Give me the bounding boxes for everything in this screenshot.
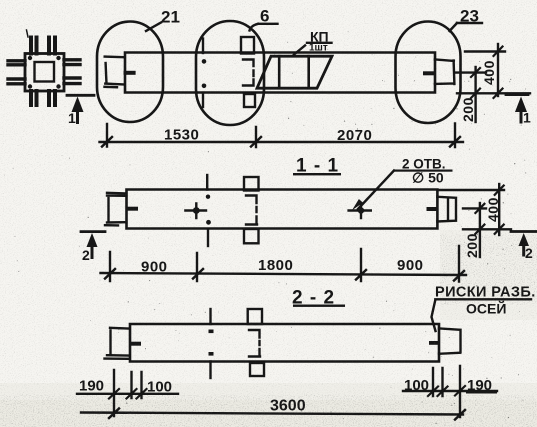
1-1 centerline stub above: [206, 175, 208, 190]
end view right bars: [64, 60, 80, 84]
ticks: [102, 137, 460, 147]
right fork (end detail): [435, 59, 455, 84]
underline 190 right: [466, 392, 497, 394]
title 1-1 underline: [293, 173, 341, 175]
2-2 left fork: [105, 328, 130, 359]
riski label leader: [432, 299, 532, 331]
1-1 dim ticks: [105, 269, 464, 281]
section cut 1 left: arrow shaft: [76, 108, 79, 123]
1-1 column body: [127, 190, 438, 229]
2-2 upper dim line right: [403, 390, 497, 392]
2-2 upper dim ticks: [109, 386, 465, 399]
stray scratch above end view: [27, 30, 29, 37]
2-2 left face tick: [130, 342, 141, 346]
2-2 right face tick: [429, 341, 440, 345]
leader 2 otv d50: [358, 171, 394, 210]
1-1 right fork: [437, 197, 456, 222]
1-1 left fork: [105, 193, 126, 226]
left fork (end detail): [105, 57, 124, 88]
hidden channel (dashed bracket, plan): [243, 60, 254, 86]
title 2-2 underline: [293, 305, 345, 307]
dimension line 1530/2070: [100, 141, 464, 143]
2-2 upper dim line left: [77, 393, 178, 395]
2-2 centerline stub below: [209, 362, 211, 379]
section 2 arrow left: [87, 233, 98, 247]
section cut 1 right: arrow shaft: [520, 108, 523, 122]
1-1 dots: [206, 195, 210, 199]
KP plate parallelogram: [257, 56, 332, 88]
detail oval 21: [97, 22, 163, 123]
1-1 embedded plate bottom: [244, 229, 259, 243]
end view inner square: [35, 62, 55, 82]
1-1 right dims ext lines: [439, 190, 511, 229]
leader for label 6: [250, 24, 278, 31]
embedded plate top (plan): [241, 37, 254, 54]
2-2 embedded plate bottom: [250, 363, 264, 376]
detail oval 6: [196, 21, 264, 125]
section 1 arrow right: [515, 97, 527, 113]
leader arrowhead (2 otv): [352, 199, 363, 210]
section cut 2 left: [81, 230, 105, 233]
1-1 centerline stub below: [207, 230, 209, 247]
hole center left: [193, 207, 200, 214]
2-2 center dashes: [209, 330, 214, 334]
filled elements: [28, 56, 529, 356]
3600 dim ticks: [109, 409, 465, 420]
KP label leader: [294, 43, 332, 55]
section cut 1 left: line: [67, 94, 94, 97]
detail oval 23: [396, 22, 461, 124]
leader for label 23: [450, 23, 483, 31]
hole cross left (1-1): [185, 203, 206, 218]
400 dim line (plan right): [497, 44, 499, 96]
2-2 right fork: [439, 328, 461, 353]
plan left face tick: [124, 71, 136, 75]
hole center right: [358, 207, 364, 213]
section cut 1 right: line: [506, 93, 528, 96]
underline 2 otv: [395, 170, 453, 172]
1-1 hidden channel dashes: [246, 196, 257, 225]
end view left bars: [8, 61, 25, 84]
1-1 right face tick: [427, 207, 438, 211]
2-2 embedded plate top: [248, 309, 262, 324]
3600 dim line: [81, 413, 463, 415]
2-2 dim ext verticals: [114, 366, 460, 417]
hole cross right (1-1): [349, 203, 371, 218]
plan right face tick: [423, 71, 435, 75]
2-2 hidden channel dashes: [249, 330, 260, 357]
end view bottom bars: [31, 91, 55, 105]
200 dim (1-1): [479, 203, 481, 257]
column body: [125, 53, 435, 93]
200 dim line (plan right): [474, 67, 476, 122]
plan dots (detail 6): [202, 59, 207, 64]
top-view dimension extension lines: [107, 124, 455, 148]
right-side dims of plan: ext lines: [456, 52, 530, 94]
1-1 embedded plate top: [244, 177, 259, 191]
leader for label 21: [146, 23, 161, 32]
1-1 dim line: [101, 273, 467, 275]
section cut 2 right: [511, 230, 537, 233]
end view corner dots: [28, 56, 32, 60]
end view top bars: [31, 38, 55, 54]
section 2 arrow right: [519, 233, 530, 246]
400 dim (1-1): [498, 184, 500, 235]
embedded plate bottom (plan): [244, 94, 255, 107]
centerline stub above (top view): [202, 39, 204, 54]
1-1 dim extension verticals: [110, 246, 459, 282]
2-2 centerline stub above: [209, 309, 211, 324]
1-1 left face tick: [127, 207, 139, 211]
centerline stub below (top view): [202, 93, 204, 107]
section 1 arrow left: [72, 97, 84, 113]
2-2 column body: [130, 324, 439, 362]
end view outer square: [25, 54, 64, 92]
